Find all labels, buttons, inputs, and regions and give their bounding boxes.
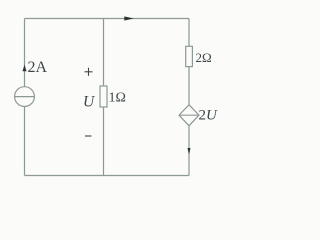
svg-text:U: U	[83, 94, 96, 111]
resistor R1 1ohm box	[100, 86, 107, 107]
current source I1 2A circle	[15, 87, 35, 107]
arrow 2A up on left branch	[23, 65, 27, 72]
wire right upper	[188, 19, 190, 47]
arrow down on right branch	[188, 148, 191, 155]
label plus	[85, 68, 93, 76]
label minus	[85, 135, 92, 137]
arrow current direction top wire	[124, 16, 133, 20]
wire right middle	[188, 67, 190, 105]
wire left lower	[24, 107, 26, 176]
svg-text:2Ω: 2Ω	[196, 50, 212, 65]
dependent current source 2U diamond	[179, 105, 199, 126]
wire bottom	[25, 175, 190, 177]
wire right lower	[188, 126, 190, 176]
wire top	[25, 18, 190, 20]
wire middle lower	[103, 107, 105, 176]
wire middle upper	[103, 19, 105, 87]
wire left upper	[24, 19, 26, 88]
svg-text:1Ω: 1Ω	[109, 91, 126, 106]
resistor R2 2ohm box	[186, 46, 193, 66]
svg-text:2A: 2A	[28, 59, 48, 76]
svg-text:2U: 2U	[199, 108, 219, 124]
